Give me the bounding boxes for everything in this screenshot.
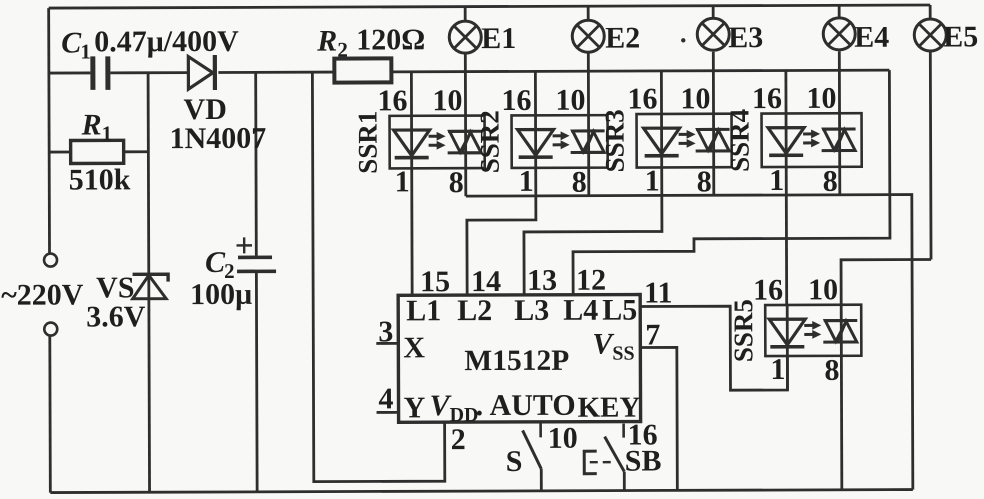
SSR4 output triac	[822, 129, 857, 151]
lamp E4	[823, 18, 855, 50]
svg-text:1: 1	[645, 164, 660, 197]
SSR4 coupling arrows	[803, 129, 820, 147]
svg-text:1: 1	[395, 165, 410, 198]
svg-text:SS: SS	[612, 343, 634, 365]
svg-text:120Ω: 120Ω	[356, 23, 425, 56]
svg-text:4: 4	[378, 382, 393, 415]
SSR1 input LED	[394, 130, 430, 156]
svg-text:S: S	[506, 445, 523, 478]
SB actuator bracket	[584, 451, 597, 474]
svg-text:16: 16	[501, 84, 531, 117]
svg-text:10: 10	[548, 422, 578, 455]
resistor R2	[334, 58, 391, 82]
svg-text:13: 13	[527, 264, 557, 297]
svg-text:8: 8	[572, 166, 587, 199]
svg-text:1N4007: 1N4007	[170, 122, 267, 155]
svg-text:10: 10	[808, 273, 838, 306]
svg-text:L1: L1	[406, 294, 441, 327]
wire VSS pin7 route to bottom rail	[640, 347, 677, 490]
svg-text:14: 14	[471, 265, 501, 298]
svg-text:2: 2	[451, 423, 466, 456]
wire SSR3 pin16 drop and pin1 route to IC pin13	[523, 71, 662, 295]
svg-text:1: 1	[519, 165, 534, 198]
wire E5 to SSR5 pin10 route	[841, 259, 931, 304]
svg-text:L4: L4	[563, 294, 598, 327]
svg-text:8: 8	[449, 166, 464, 199]
wire bottom AC rail	[50, 490, 912, 493]
svg-text:X: X	[403, 331, 425, 364]
svg-text:100μ: 100μ	[190, 278, 252, 311]
wire zener VS branch vertical	[148, 73, 149, 492]
SSR5 input LED	[769, 319, 805, 345]
SSR5 coupling arrows	[804, 321, 821, 339]
wire C2 branch vertical	[256, 72, 257, 491]
svg-text:16: 16	[752, 82, 782, 115]
svg-text:C: C	[61, 26, 82, 59]
switch S contact	[539, 422, 542, 437]
svg-text:10: 10	[555, 84, 585, 117]
svg-text:SSR3: SSR3	[600, 109, 630, 172]
svg-text:12: 12	[576, 264, 606, 297]
SSR3 output triac	[696, 129, 731, 151]
svg-text:E3: E3	[728, 21, 763, 54]
opto-SSR module SSR3 box	[637, 114, 732, 168]
wire SSR1 pin16 from rail through LED to IC pin15	[410, 72, 414, 295]
svg-text:10: 10	[680, 82, 710, 115]
capacitor C2 electrolytic	[238, 255, 272, 259]
SSR2 input LED	[518, 130, 554, 156]
wire SSR2 pin16 drop and pin1 route to IC pin14	[466, 71, 536, 295]
scan speck before E3	[681, 38, 685, 42]
terminal lower ~220V	[44, 323, 57, 336]
svg-text:SB: SB	[625, 444, 662, 477]
svg-text:1: 1	[769, 164, 784, 197]
wire IC pin12 route to y239 junction and rail-end drop x890	[572, 70, 890, 295]
lamp E3	[697, 18, 729, 50]
svg-text:E4: E4	[854, 21, 889, 54]
opto-SSR module SSR4 box	[762, 113, 862, 167]
svg-text:R: R	[81, 108, 102, 141]
wire R2 to rail end corner	[391, 70, 889, 72]
svg-text:0.47μ/400V: 0.47μ/400V	[94, 25, 239, 59]
wire SSR5 pin8 drop to bottom rail	[840, 305, 843, 490]
wire VDD supply path x313 down and to IC pin 2	[312, 72, 444, 482]
wire lamp E5 drop	[929, 5, 933, 259]
lamp E2	[572, 20, 604, 52]
wire SSR5 LED internal pin1 segment	[786, 305, 789, 390]
SSR2 output triac	[571, 131, 606, 153]
svg-text:.: .	[475, 389, 483, 422]
IC U1 M1512P body	[398, 295, 640, 423]
capacitor C1	[93, 56, 108, 90]
SSR1 output triac	[448, 131, 483, 153]
wire left border from top corner to upper terminal	[47, 8, 51, 253]
svg-text:Y: Y	[403, 391, 425, 424]
opto-SSR module SSR5 box	[765, 305, 861, 356]
wire IC pin11 route to SSR5 pin1	[640, 306, 787, 391]
IC pin 4 stub and number	[377, 411, 399, 414]
svg-text:SSR1: SSR1	[353, 111, 383, 174]
SSR1 coupling arrows	[429, 132, 446, 150]
svg-text:510k: 510k	[69, 163, 131, 196]
svg-text:L3: L3	[514, 294, 549, 327]
wire triac return bus y196 and right drop x912	[466, 195, 913, 492]
lamp E1	[449, 21, 481, 53]
SSR5 output triac	[823, 320, 858, 342]
svg-text:R: R	[316, 25, 337, 58]
svg-text:L5: L5	[602, 294, 637, 327]
SSR3 coupling arrows	[679, 130, 696, 148]
svg-text:SSR5: SSR5	[728, 299, 758, 362]
svg-text:11: 11	[644, 276, 672, 309]
wire lamp E4 drop	[838, 5, 841, 194]
wire main DC rail y71 left of C1	[49, 72, 90, 75]
lamp E5	[914, 19, 946, 51]
svg-text:~220V: ~220V	[1, 278, 84, 311]
svg-text:10: 10	[806, 82, 836, 115]
wire VD to R2	[218, 71, 334, 74]
wire lamp E1 drop	[464, 7, 467, 196]
IC pin 3 stub and number	[376, 342, 398, 345]
svg-text:10: 10	[432, 84, 462, 117]
wire C1 to VD	[110, 71, 187, 74]
SSR4 input LED	[768, 128, 804, 154]
svg-text:L2: L2	[457, 294, 492, 327]
opto-SSR module SSR1 box	[390, 116, 485, 169]
SSR3 input LED	[644, 128, 680, 154]
opto-SSR module SSR2 box	[512, 115, 608, 168]
svg-text:1: 1	[80, 39, 91, 63]
svg-text:8: 8	[697, 165, 712, 198]
svg-text:16: 16	[627, 82, 657, 115]
svg-text:1: 1	[770, 353, 785, 386]
wire R1 branch	[49, 150, 148, 153]
zener diode VS	[133, 274, 169, 282]
pushbutton SB contact	[622, 424, 625, 438]
wire left border lower terminal to bottom rail	[48, 336, 51, 493]
svg-text:1: 1	[102, 121, 113, 145]
svg-text:15: 15	[420, 265, 450, 298]
svg-text:E1: E1	[481, 22, 516, 55]
terminal upper ~220V	[44, 254, 57, 267]
wire lamp E3 drop	[712, 6, 715, 195]
svg-text:8: 8	[823, 165, 838, 198]
svg-text:2: 2	[337, 38, 348, 62]
SSR2 coupling arrows	[553, 131, 570, 149]
svg-text:7: 7	[645, 318, 660, 351]
svg-text:C: C	[205, 246, 226, 279]
svg-text:M1512P: M1512P	[464, 345, 569, 377]
wire SSR4 pin16 drop through to SSR5 pin16	[784, 71, 788, 305]
wire lamp E2 drop	[587, 6, 590, 195]
diode VD 1N4007	[188, 57, 213, 90]
svg-text:3.6V: 3.6V	[86, 300, 146, 333]
svg-text:SSR2: SSR2	[475, 110, 505, 173]
svg-text:3: 3	[378, 315, 393, 348]
svg-text:AUTO: AUTO	[489, 389, 575, 422]
wire top AC rail	[49, 5, 930, 8]
resistor R1	[71, 140, 124, 163]
svg-text:SSR4: SSR4	[725, 109, 755, 172]
svg-text:E2: E2	[605, 22, 640, 55]
svg-text:E5: E5	[943, 20, 978, 53]
svg-text:8: 8	[824, 354, 839, 387]
